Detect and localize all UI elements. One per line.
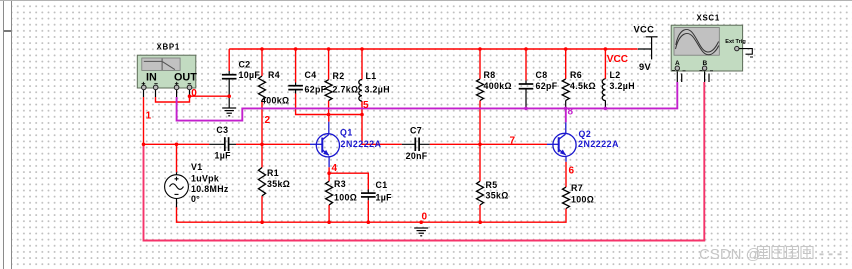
svg-text:1: 1 <box>146 111 152 122</box>
svg-text:62pF: 62pF <box>536 81 558 91</box>
svg-text:L2: L2 <box>610 70 621 80</box>
svg-text:C2: C2 <box>239 60 251 70</box>
svg-text:0: 0 <box>422 212 428 223</box>
svg-text:C1: C1 <box>376 180 388 190</box>
svg-text:XSC1: XSC1 <box>697 14 720 23</box>
svg-text:C8: C8 <box>536 70 548 80</box>
svg-text:400kΩ: 400kΩ <box>261 96 289 106</box>
svg-text:2N2222A: 2N2222A <box>341 139 382 149</box>
svg-text:0: 0 <box>191 88 197 99</box>
svg-text:100Ω: 100Ω <box>571 195 594 205</box>
svg-text:Q2: Q2 <box>579 129 592 139</box>
svg-text:8: 8 <box>568 107 574 118</box>
svg-text:R3: R3 <box>334 179 346 189</box>
svg-text:1uVpk: 1uVpk <box>191 174 219 184</box>
svg-text:62pF: 62pF <box>305 85 327 95</box>
svg-text:VCC: VCC <box>607 54 628 65</box>
svg-text:CSDN @: CSDN @ <box>699 246 761 263</box>
svg-text:3.2µH: 3.2µH <box>365 85 390 95</box>
svg-text:35kΩ: 35kΩ <box>267 179 290 189</box>
svg-text:V1: V1 <box>191 162 202 172</box>
svg-text:7: 7 <box>510 136 516 147</box>
svg-text:9V: 9V <box>639 62 652 72</box>
svg-text:R5: R5 <box>486 180 498 190</box>
svg-text:3.2µH: 3.2µH <box>610 81 635 91</box>
svg-text:Q1: Q1 <box>340 128 353 138</box>
svg-text:XBP1: XBP1 <box>157 43 180 52</box>
svg-text:0°: 0° <box>191 194 200 204</box>
svg-text:Ext Trig: Ext Trig <box>725 39 746 45</box>
svg-text:10.8MHz: 10.8MHz <box>191 184 229 194</box>
svg-text:20nF: 20nF <box>406 151 428 161</box>
svg-text:4: 4 <box>332 163 338 174</box>
svg-text:R1: R1 <box>267 168 279 178</box>
svg-text:B: B <box>703 60 708 67</box>
svg-text:OUT: OUT <box>174 71 197 83</box>
svg-text:C4: C4 <box>305 70 317 80</box>
svg-text:C3: C3 <box>216 125 228 135</box>
svg-text:2: 2 <box>265 115 271 126</box>
svg-text:6: 6 <box>569 166 575 177</box>
svg-text:5: 5 <box>363 100 369 111</box>
svg-text:R2: R2 <box>333 71 345 81</box>
svg-text:35kΩ: 35kΩ <box>486 191 509 201</box>
svg-text:4.5kΩ: 4.5kΩ <box>570 81 596 91</box>
svg-text:1µF: 1µF <box>376 193 393 203</box>
svg-text:R8: R8 <box>484 70 496 80</box>
svg-text:R7: R7 <box>571 183 583 193</box>
svg-text:IN: IN <box>146 71 157 83</box>
svg-text:2N2222A: 2N2222A <box>578 139 619 149</box>
svg-text:L1: L1 <box>366 71 377 81</box>
svg-text:400kΩ: 400kΩ <box>484 81 512 91</box>
svg-text:10µF: 10µF <box>239 70 261 80</box>
svg-text:C7: C7 <box>410 126 422 136</box>
svg-text:VCC: VCC <box>634 25 655 35</box>
svg-text:R6: R6 <box>570 70 582 80</box>
svg-text:100Ω: 100Ω <box>334 193 357 203</box>
svg-text:2.7kΩ: 2.7kΩ <box>333 85 359 95</box>
svg-text:R4: R4 <box>268 70 280 80</box>
svg-text:1µF: 1µF <box>215 151 232 161</box>
svg-text:A: A <box>675 60 680 67</box>
